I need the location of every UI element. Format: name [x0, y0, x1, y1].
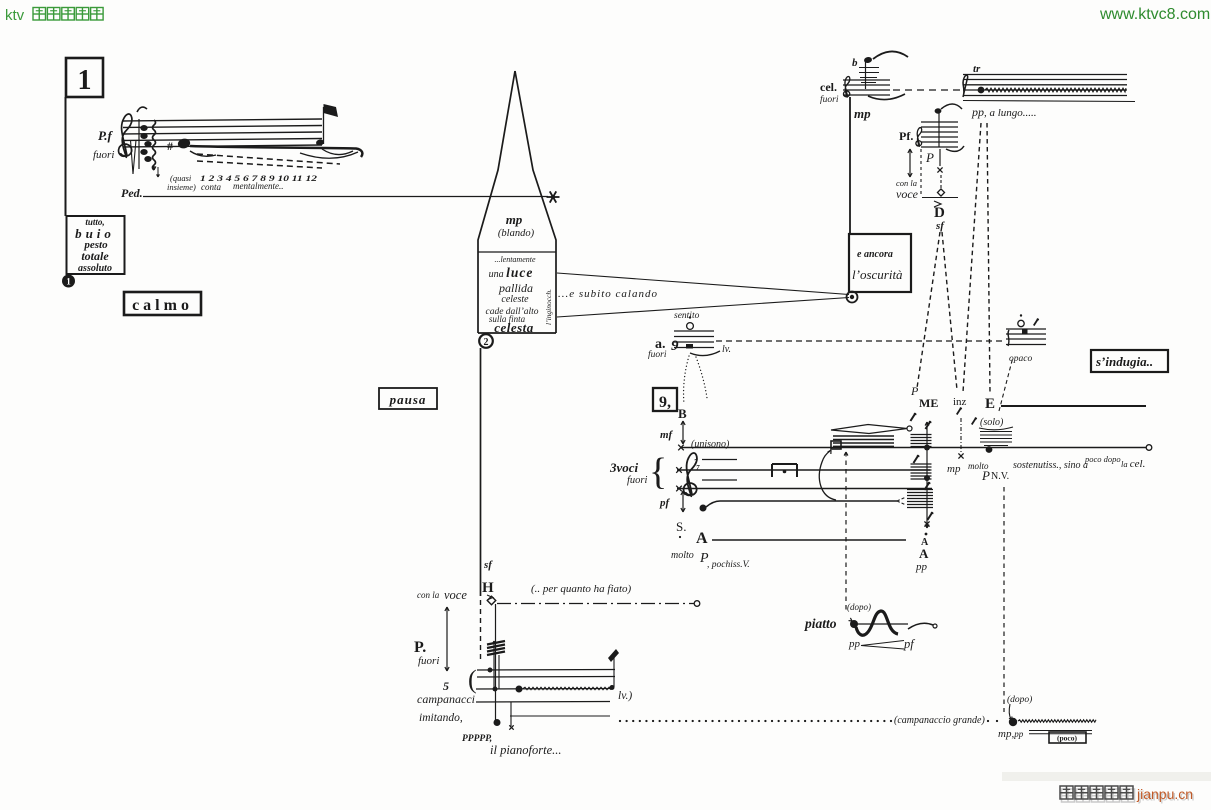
svg-text:PPPPP,: PPPPP, [462, 734, 492, 744]
svg-text:3voci: 3voci [609, 460, 639, 475]
svg-text:, pochiss.V.: , pochiss.V. [707, 560, 750, 570]
svg-text:pp: pp [848, 638, 861, 650]
svg-text:mentalmente..: mentalmente.. [233, 181, 283, 191]
svg-text:pp: pp [915, 561, 928, 573]
svg-text:(.. per quanto ha fiato): (.. per quanto ha fiato) [531, 583, 632, 595]
svg-text:ME: ME [919, 396, 938, 410]
svg-text:fuori: fuori [648, 349, 667, 360]
svg-text:una luce: una luce [489, 265, 534, 280]
svg-text:pausa: pausa [389, 392, 427, 407]
svg-text:poco dopo: poco dopo [1084, 454, 1121, 464]
svg-text:P: P [981, 468, 990, 483]
svg-text:insieme): insieme) [167, 182, 196, 192]
svg-text:voce: voce [896, 187, 919, 201]
svg-text:(poco): (poco) [1057, 734, 1077, 743]
svg-text:D: D [934, 205, 945, 221]
svg-text:Pf.: Pf. [899, 129, 913, 143]
svg-text:piatto: piatto [804, 616, 837, 631]
svg-text:(blando): (blando) [498, 228, 535, 239]
svg-text:fuori: fuori [93, 149, 114, 161]
svg-text:A: A [696, 530, 708, 547]
svg-text:molto: molto [671, 550, 694, 561]
svg-text:pp, a lungo.....: pp, a lungo..... [971, 105, 1037, 119]
svg-text:l’inginocch.: l’inginocch. [544, 289, 553, 325]
svg-text:B: B [678, 406, 687, 421]
svg-text:celeste: celeste [501, 294, 529, 305]
svg-text:P: P [925, 150, 934, 165]
svg-text:sf: sf [483, 559, 493, 571]
svg-text:jianpu.cn: jianpu.cn [1136, 786, 1193, 802]
svg-text:A: A [919, 546, 929, 561]
svg-text:campanacci: campanacci [417, 692, 475, 706]
svg-text:s’indugia..: s’indugia.. [1095, 354, 1153, 369]
svg-text:voce: voce [444, 588, 467, 602]
svg-text:b: b [852, 57, 858, 69]
svg-text:1: 1 [66, 277, 71, 287]
svg-text:cel.: cel. [820, 80, 837, 94]
svg-text:(campanaccio grande): (campanaccio grande) [894, 715, 985, 726]
svg-text:(dopo): (dopo) [847, 602, 871, 612]
svg-text:fuori: fuori [820, 94, 839, 105]
svg-text:fuori: fuori [627, 475, 648, 486]
svg-text:inz: inz [953, 396, 967, 408]
svg-text:pf: pf [659, 497, 671, 509]
svg-text:la cel.: la cel. [1121, 458, 1145, 470]
svg-text:(: ( [468, 665, 477, 694]
svg-text:P.f: P.f [98, 128, 114, 143]
svg-text:P: P [910, 384, 919, 398]
svg-text:sentito: sentito [674, 311, 700, 321]
svg-text:H: H [482, 580, 494, 596]
svg-text:pf: pf [903, 637, 915, 651]
svg-text:S.: S. [676, 519, 686, 534]
svg-text:Ped.: Ped. [121, 186, 143, 200]
svg-text:{: { [649, 451, 667, 493]
svg-text:#: # [167, 139, 173, 153]
svg-text:5: 5 [443, 679, 449, 693]
svg-text:il pianoforte...: il pianoforte... [490, 743, 562, 757]
svg-text:lv.): lv.) [618, 690, 632, 702]
svg-text:(unisono): (unisono) [691, 439, 730, 450]
svg-text:celesta: celesta [494, 320, 534, 335]
svg-text:www.ktvc8.com: www.ktvc8.com [1099, 6, 1210, 23]
svg-text:...e subito calando: ...e subito calando [558, 288, 658, 300]
svg-text:P.: P. [414, 639, 426, 656]
svg-text:e ancora: e ancora [857, 249, 893, 260]
svg-text:1: 1 [78, 65, 92, 96]
svg-text:mp: mp [854, 106, 871, 121]
svg-text:l’oscurità: l’oscurità [852, 267, 903, 282]
svg-text:opaco: opaco [1009, 354, 1032, 364]
svg-text:(solo): (solo) [980, 417, 1004, 428]
svg-text:tr: tr [973, 63, 981, 75]
svg-text:con la: con la [417, 590, 440, 600]
svg-text:mp,pp: mp,pp [998, 728, 1024, 740]
svg-text:mp: mp [506, 212, 523, 227]
svg-text:sf: sf [935, 220, 945, 232]
svg-text:9,: 9, [659, 394, 671, 411]
svg-text:N.V.: N.V. [991, 471, 1009, 482]
svg-text:mp: mp [947, 463, 961, 475]
svg-text:imitando,: imitando, [419, 712, 463, 724]
svg-text:fuori: fuori [418, 655, 439, 667]
svg-text:...lentamente: ...lentamente [494, 255, 536, 264]
svg-text:sostenutiss., sino a: sostenutiss., sino a [1013, 460, 1088, 471]
svg-text:(dopo): (dopo) [1007, 694, 1032, 705]
svg-text:2: 2 [484, 337, 489, 348]
svg-text:ktv: ktv [5, 7, 25, 24]
svg-text:pallida: pallida [498, 281, 533, 295]
svg-text:calmo: calmo [132, 297, 193, 314]
svg-text:conta: conta [201, 182, 221, 192]
svg-text:assoluto: assoluto [78, 263, 112, 274]
svg-text:lv.: lv. [722, 344, 731, 355]
svg-text:mf: mf [660, 429, 674, 441]
svg-text:7: 7 [696, 464, 700, 472]
svg-text:9: 9 [671, 338, 679, 354]
svg-text:totale: totale [81, 249, 109, 263]
svg-text:E: E [985, 396, 995, 412]
